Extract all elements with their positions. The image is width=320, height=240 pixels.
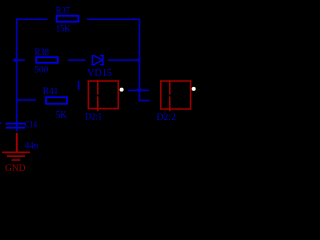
pin dot D2:1 — [120, 88, 124, 92]
ground symbol bar1 — [2, 152, 30, 154]
svg-text:R41: R41 — [43, 86, 58, 96]
svg-text:15K: 15K — [56, 23, 71, 33]
wire top horizontal right — [87, 18, 140, 20]
wire R41 horizontal — [16, 99, 36, 101]
svg-text:5K: 5K — [56, 110, 68, 121]
svg-text:500: 500 — [35, 65, 49, 75]
resistor R41 — [46, 97, 67, 104]
capacitor C14 bottom plate — [6, 127, 26, 129]
pin dot D2:2 — [192, 87, 196, 91]
svg-text:R38: R38 — [35, 47, 50, 57]
svg-text:C14: C14 — [25, 119, 38, 129]
resistor R37 — [57, 16, 79, 22]
component D2:2 divider upper — [169, 80, 171, 95]
capacitor C14 top plate — [6, 123, 26, 125]
wire diode to right vertical — [108, 59, 138, 61]
ground symbol bar3 — [12, 159, 21, 161]
svg-text:D2:1: D2:1 — [85, 111, 102, 121]
wire R38 to diode — [68, 59, 86, 61]
diode VD15 anode bar — [92, 55, 94, 65]
capacitor C14 edge tick — [0, 122, 1, 124]
diode VD15 triangle — [95, 56, 103, 60]
wire mid horizontal left of R38 — [16, 59, 25, 61]
junction arrow at left rail — [12, 57, 17, 63]
component D2:2 box — [161, 81, 191, 109]
component D2:2 divider lower — [169, 96, 171, 111]
ground wire red — [16, 133, 18, 152]
resistor R38 — [36, 57, 58, 63]
wire bottom stub tick — [139, 100, 150, 102]
diode VD15 cathode bar — [102, 55, 104, 65]
svg-text:D2:2: D2:2 — [157, 112, 176, 122]
component D2:1 box — [88, 81, 118, 109]
wire top horizontal left — [16, 18, 48, 20]
component D2:1 divider lower — [97, 96, 99, 111]
svg-text:44n: 44n — [25, 141, 39, 151]
wire stub above D2:1 — [78, 81, 80, 90]
junction arrow at right vertical mid — [135, 57, 140, 62]
component D2:1 divider upper — [97, 80, 99, 95]
wire from D2:1 pin dot — [128, 90, 149, 92]
ground symbol bar2 — [7, 155, 25, 157]
svg-text:GND: GND — [5, 163, 26, 173]
wire left vertical rail — [16, 18, 18, 131]
wire right vertical — [139, 18, 141, 101]
svg-text:R37: R37 — [56, 6, 71, 16]
junction arrow down at right vertical — [136, 89, 142, 93]
svg-text:VD15: VD15 — [87, 68, 112, 79]
